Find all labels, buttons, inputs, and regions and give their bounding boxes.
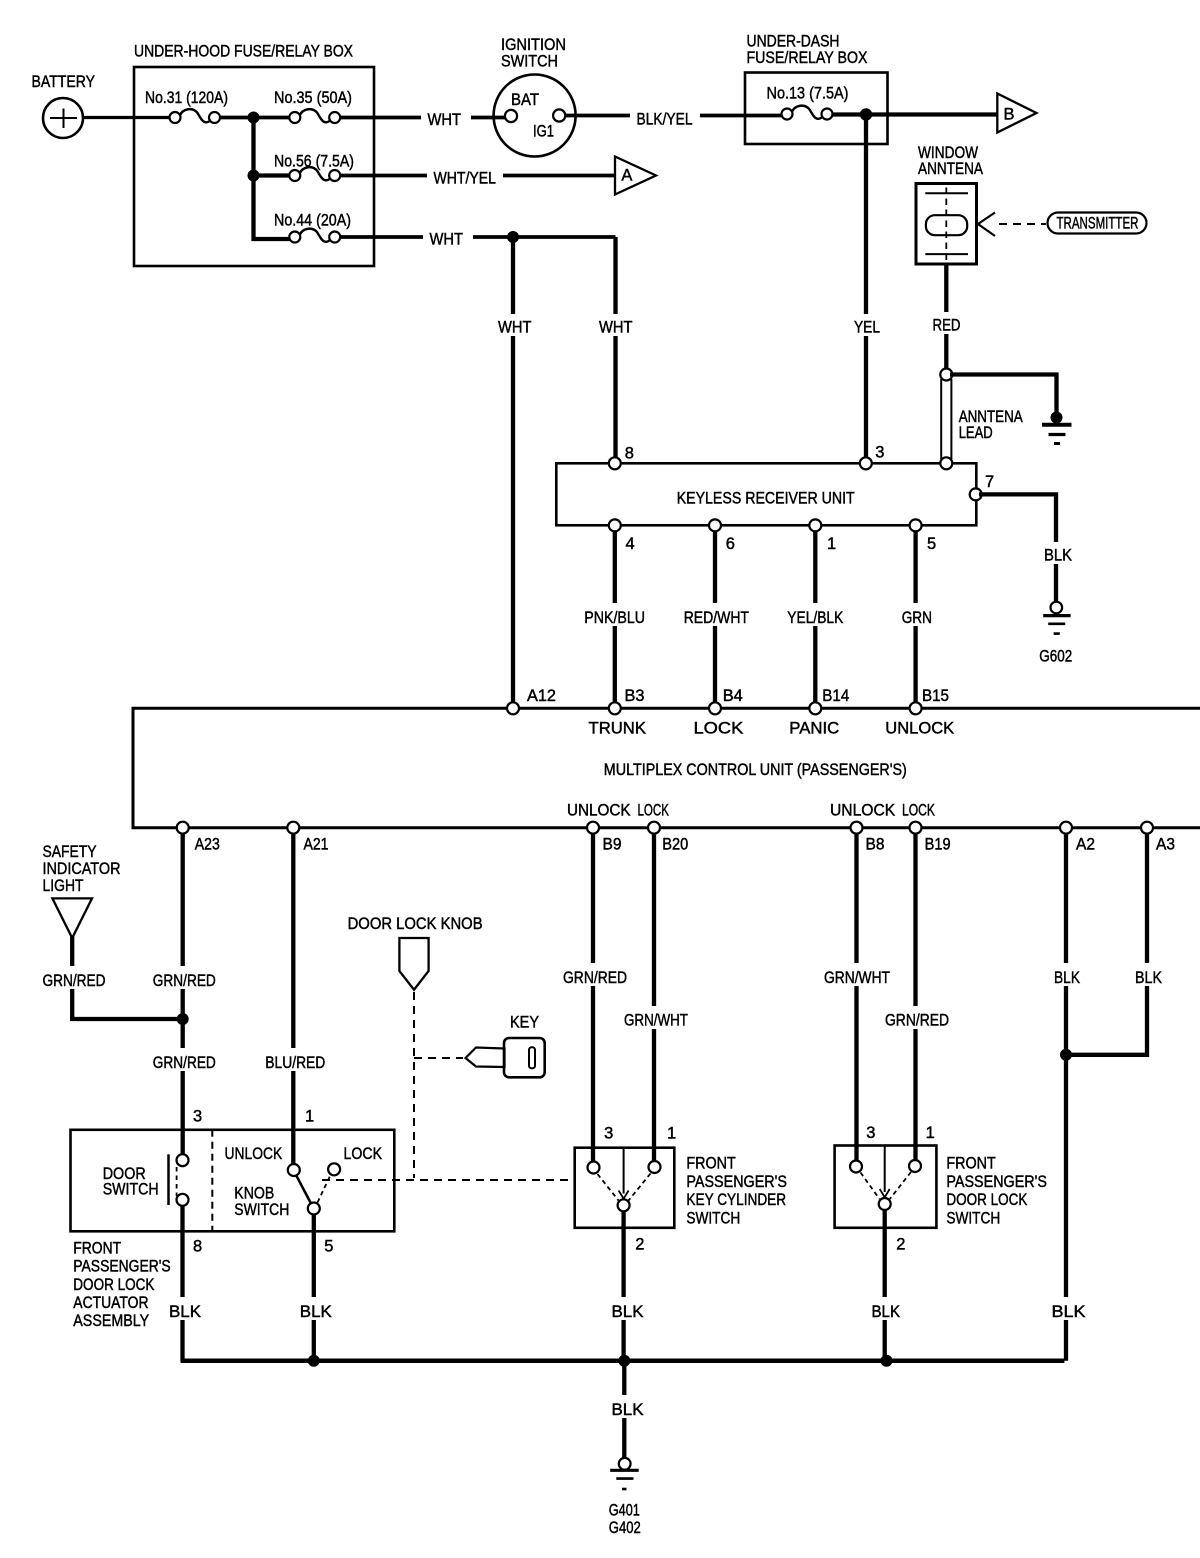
svg-text:UNLOCK: UNLOCK (567, 802, 631, 820)
svg-text:KEYLESS RECEIVER UNIT: KEYLESS RECEIVER UNIT (677, 490, 855, 508)
terminal B9 (587, 822, 622, 854)
terminal A3 (1141, 822, 1175, 854)
svg-text:BLK: BLK (612, 1401, 644, 1419)
svg-text:WHT: WHT (599, 319, 633, 337)
svg-text:BLK: BLK (169, 1303, 201, 1321)
svg-text:3: 3 (866, 1124, 875, 1142)
wire YEL vertical to keyless pin 3 (846, 115, 888, 464)
svg-text:A: A (621, 167, 632, 185)
svg-text:ASSEMBLY: ASSEMBLY (73, 1312, 149, 1330)
pin 8 keyless (609, 445, 634, 470)
anntena lead terminal at keyless (940, 457, 952, 469)
wire WHT/YEL fuse56 to connector A (340, 164, 614, 188)
wire BLK door switch 8 to bus (164, 1206, 206, 1361)
svg-text:ANNTENA: ANNTENA (918, 160, 983, 178)
svg-text:6: 6 (726, 535, 735, 553)
svg-text:No.44 (20A): No.44 (20A) (274, 212, 351, 230)
terminal B4 LOCK (694, 687, 744, 738)
fuse No.35 (50A) (274, 89, 352, 123)
svg-text:B14: B14 (822, 687, 849, 705)
junction node knob switch to bus (308, 1355, 320, 1367)
svg-text:INDICATOR: INDICATOR (43, 860, 121, 878)
keyless receiver unit (556, 463, 976, 525)
wire GRN/WHT B20 down (619, 834, 693, 1163)
svg-text:LOCK: LOCK (344, 1145, 383, 1163)
svg-text:TRUNK: TRUNK (589, 720, 647, 738)
dashed mechanical linkage knob switch to key cylinder (322, 1179, 575, 1181)
svg-text:B: B (1004, 106, 1015, 124)
wire GRN/RED A23 down (148, 834, 220, 1156)
svg-text:BAT: BAT (511, 91, 539, 109)
svg-text:FRONT: FRONT (946, 1155, 995, 1173)
door lock knob (348, 915, 483, 990)
under-dash fuse/relay box (745, 33, 888, 145)
svg-text:No.13 (7.5A): No.13 (7.5A) (767, 85, 849, 103)
wire WHT fuse35 to ignition BAT (340, 106, 506, 129)
svg-text:MULTIPLEX CONTROL UNIT (PASSEN: MULTIPLEX CONTROL UNIT (PASSENGER'S) (604, 761, 907, 779)
svg-text:UNLOCK: UNLOCK (885, 720, 954, 738)
junction node WHT tap A12 (507, 231, 519, 243)
fuse No.13 (7.5A) (767, 85, 849, 120)
terminal B14 PANIC (789, 687, 849, 738)
svg-text:5: 5 (324, 1238, 333, 1256)
dashed link door lock knob to knob switch (413, 992, 415, 1178)
wire BLK/YEL ignition IG1 to under-dash fuse 13 (565, 105, 782, 129)
svg-text:WHT: WHT (498, 319, 532, 337)
svg-text:UNDER-HOOD FUSE/RELAY BOX: UNDER-HOOD FUSE/RELAY BOX (134, 43, 353, 61)
terminal A2 (1060, 822, 1095, 854)
svg-text:BLK: BLK (872, 1303, 901, 1321)
door switch (103, 1154, 189, 1206)
svg-text:A23: A23 (195, 836, 220, 854)
svg-text:SWITCH: SWITCH (234, 1201, 289, 1219)
svg-text:No.35 (50A): No.35 (50A) (274, 89, 352, 107)
wire BLK pin7 to G602 (979, 494, 1078, 602)
svg-text:GRN/RED: GRN/RED (563, 969, 627, 987)
svg-text:BLK: BLK (1135, 969, 1162, 987)
svg-text:B8: B8 (866, 836, 885, 854)
svg-text:1: 1 (827, 535, 836, 553)
svg-text:YEL/BLK: YEL/BLK (787, 609, 843, 627)
fuse No.56 (7.5A) (274, 153, 354, 182)
svg-text:SWITCH: SWITCH (103, 1181, 159, 1199)
svg-text:PASSENGER'S: PASSENGER'S (946, 1173, 1047, 1191)
svg-text:RED/WHT: RED/WHT (684, 609, 749, 627)
svg-text:IGNITION: IGNITION (501, 36, 566, 54)
svg-text:GRN/WHT: GRN/WHT (624, 1012, 688, 1030)
svg-text:4: 4 (626, 535, 635, 553)
svg-text:DOOR LOCK: DOOR LOCK (73, 1276, 154, 1294)
multiplex control unit (passenger's) box (133, 708, 1200, 827)
wire BLK key cylinder 2 to bus (606, 1211, 648, 1360)
svg-text:BATTERY: BATTERY (32, 73, 96, 91)
svg-text:ACTUATOR: ACTUATOR (73, 1294, 148, 1312)
wire vertical feed in fuse box (254, 118, 290, 240)
wire WHT fuse44 run with junction (340, 226, 615, 249)
svg-text:SWITCH: SWITCH (501, 53, 558, 71)
svg-text:TRANSMITTER: TRANSMITTER (1057, 215, 1139, 233)
svg-text:FRONT: FRONT (686, 1155, 735, 1173)
svg-text:G401: G401 (609, 1502, 640, 1520)
svg-text:BLK: BLK (1044, 547, 1072, 565)
wire RED/WHT keyless 6 to B4 (679, 531, 753, 708)
pin 3 keyless (860, 444, 885, 470)
svg-text:G602: G602 (1039, 648, 1072, 666)
wire BLK bus to ground G401/G402 (606, 1361, 648, 1458)
svg-text:G402: G402 (609, 1519, 641, 1537)
svg-text:5: 5 (927, 535, 936, 553)
junction node safety light tap (177, 1013, 189, 1025)
svg-text:BLK/YEL: BLK/YEL (637, 111, 693, 129)
wire fuse31 to fuse35 with junction (220, 116, 290, 120)
wire GRN/RED B19 down (880, 834, 954, 1162)
svg-text:DOOR LOCK KNOB: DOOR LOCK KNOB (348, 915, 483, 933)
wire BLU/RED A21 down (261, 834, 331, 1166)
svg-text:IG1: IG1 (533, 123, 554, 141)
svg-text:1: 1 (667, 1125, 676, 1143)
pin 1 keyless (809, 519, 836, 553)
ground bus wire (181, 1358, 1065, 1363)
svg-text:8: 8 (625, 445, 634, 463)
svg-text:SWITCH: SWITCH (686, 1209, 740, 1227)
svg-text:A12: A12 (527, 687, 556, 705)
safety indicator light (43, 843, 121, 938)
svg-text:2: 2 (896, 1236, 905, 1254)
terminal A21 (287, 822, 328, 854)
wire GRN/RED safety light to junction (38, 936, 183, 1019)
pin 6 keyless (709, 519, 735, 553)
svg-text:3: 3 (193, 1108, 202, 1126)
svg-text:PNK/BLU: PNK/BLU (584, 609, 645, 627)
svg-text:WHT/YEL: WHT/YEL (434, 170, 497, 188)
svg-text:SWITCH: SWITCH (946, 1209, 1000, 1227)
pin 5 keyless (910, 519, 937, 553)
transmitter (1048, 213, 1147, 234)
svg-text:FRONT: FRONT (73, 1240, 121, 1258)
wire antenna lead to ground (950, 375, 1057, 415)
ground (antenna lead) (1042, 412, 1072, 444)
wire BLK A3 down joining A2 (1066, 834, 1168, 1055)
svg-text:GRN/RED: GRN/RED (153, 1054, 216, 1072)
svg-text:BLK: BLK (300, 1303, 332, 1321)
svg-text:BLU/RED: BLU/RED (265, 1054, 325, 1072)
svg-text:7: 7 (985, 473, 994, 491)
terminal B19 (910, 822, 951, 854)
svg-text:PANIC: PANIC (789, 720, 839, 738)
svg-text:KNOB: KNOB (234, 1185, 274, 1203)
ground G401/G402 (609, 1458, 641, 1537)
svg-text:BLK: BLK (1054, 969, 1080, 987)
connector A arrow (615, 157, 656, 195)
svg-text:3: 3 (875, 444, 884, 462)
svg-text:KEY: KEY (510, 1014, 539, 1032)
svg-text:KEY CYLINDER: KEY CYLINDER (686, 1191, 786, 1209)
knob switch (225, 1145, 383, 1219)
key (466, 1014, 545, 1078)
wire GRN keyless 5 to B15 (896, 531, 936, 708)
svg-text:PASSENGER'S: PASSENGER'S (686, 1173, 787, 1191)
front passenger's door lock actuator assembly box (71, 1130, 395, 1330)
svg-text:UNLOCK: UNLOCK (830, 802, 895, 820)
svg-text:FUSE/RELAY BOX: FUSE/RELAY BOX (747, 49, 868, 67)
anntena lead (940, 369, 1022, 460)
svg-text:GRN/RED: GRN/RED (153, 972, 216, 990)
svg-text:BLK: BLK (1052, 1303, 1086, 1321)
svg-text:PASSENGER'S: PASSENGER'S (73, 1258, 170, 1276)
terminal B3 TRUNK (589, 687, 647, 738)
ground G602 (1039, 602, 1072, 666)
wire RED antenna to lead (926, 264, 967, 375)
svg-text:YEL: YEL (854, 319, 880, 337)
pin 7 keyless (970, 473, 994, 500)
svg-text:GRN/RED: GRN/RED (885, 1012, 949, 1030)
svg-text:A3: A3 (1156, 836, 1175, 854)
junction node YEL tap (860, 108, 872, 120)
svg-text:GRN: GRN (902, 609, 932, 627)
fuse No.44 (20A) (274, 212, 351, 243)
svg-text:1: 1 (305, 1108, 314, 1126)
svg-text:WHT: WHT (430, 231, 464, 249)
junction node fuse31 out (248, 112, 260, 124)
svg-text:A2: A2 (1076, 836, 1095, 854)
under-hood fuse/relay box (134, 43, 374, 267)
svg-text:B4: B4 (723, 687, 743, 705)
svg-text:GRN/RED: GRN/RED (43, 972, 106, 990)
svg-text:DOOR LOCK: DOOR LOCK (946, 1191, 1027, 1209)
junction node fuse56 feed (248, 170, 260, 182)
pin 4 keyless (609, 519, 635, 553)
junction node key cylinder to bus (618, 1355, 630, 1367)
fuse No.31 (120A) (145, 89, 228, 123)
front passenger's door lock switch (835, 1146, 1047, 1228)
svg-text:RED: RED (933, 317, 961, 335)
wire WHT vertical to A12 (492, 237, 537, 708)
svg-text:2: 2 (635, 1236, 644, 1254)
dashed wire transmitter link (999, 223, 1046, 225)
junction node door lock switch to bus (881, 1355, 893, 1367)
wire GRN/RED B9 down (558, 834, 632, 1163)
wire battery to fuse box (83, 116, 171, 119)
svg-text:1: 1 (926, 1124, 935, 1142)
svg-text:LEAD: LEAD (959, 424, 993, 442)
terminal B15 UNLOCK (885, 687, 954, 738)
svg-text:GRN/WHT: GRN/WHT (824, 969, 890, 987)
svg-text:LOCK: LOCK (638, 802, 670, 820)
svg-text:UNLOCK: UNLOCK (225, 1145, 283, 1163)
terminal A12 (507, 687, 556, 714)
window anntena (916, 144, 983, 264)
connector B arrow (997, 94, 1036, 133)
svg-text:B9: B9 (603, 836, 622, 854)
wire fuse13 to connector B (833, 112, 997, 116)
svg-text:No.31 (120A): No.31 (120A) (145, 89, 228, 107)
svg-text:LIGHT: LIGHT (43, 877, 84, 895)
wire WHT vertical to keyless pin 8 (593, 237, 638, 463)
wire GRN/WHT B8 down (819, 834, 895, 1162)
svg-text:WHT: WHT (428, 111, 462, 129)
wire BLK A2 down to bus (1046, 834, 1092, 1361)
terminal B8 (851, 822, 885, 854)
svg-text:B20: B20 (662, 836, 688, 854)
wire BLK door lock switch 2 to bus (866, 1210, 908, 1361)
arrow to antenna from transmitter (978, 213, 995, 237)
svg-text:3: 3 (604, 1125, 613, 1143)
wire YEL/BLK keyless 1 to B14 (782, 531, 848, 708)
svg-text:SAFETY: SAFETY (43, 843, 97, 861)
svg-text:BLK: BLK (612, 1303, 644, 1321)
front passenger's key cylinder switch (575, 1148, 787, 1228)
battery B1 (32, 73, 96, 138)
terminal B20 (648, 822, 688, 854)
wire BLK knob switch 5 to bus (294, 1215, 336, 1361)
junction node A3 joins A2 (1060, 1049, 1072, 1061)
wire PNK/BLU keyless 4 to B3 (580, 531, 650, 708)
svg-text:A21: A21 (304, 836, 329, 854)
svg-text:8: 8 (193, 1238, 202, 1256)
dashed link key to knob linkage (414, 1057, 463, 1059)
svg-text:B19: B19 (925, 836, 951, 854)
svg-text:UNDER-DASH: UNDER-DASH (747, 33, 840, 51)
svg-text:B3: B3 (625, 687, 645, 705)
ignition switch SW1 (494, 36, 576, 157)
svg-text:B15: B15 (922, 687, 949, 705)
svg-text:LOCK: LOCK (694, 720, 744, 738)
svg-text:LOCK: LOCK (902, 802, 935, 820)
terminal A23 (177, 822, 220, 854)
